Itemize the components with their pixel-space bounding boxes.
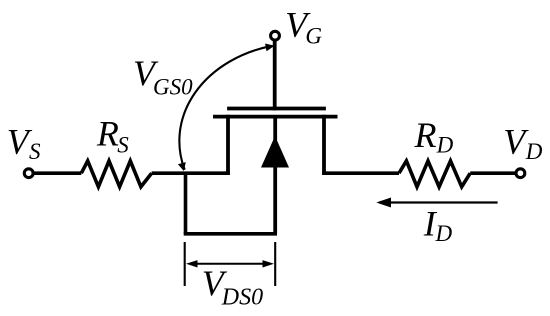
wire gate lead from VG terminal to gate bar <box>273 40 277 110</box>
svg-text:R: R <box>96 114 119 154</box>
svg-text:G: G <box>305 24 322 49</box>
wire from VS terminal to RS <box>34 171 82 175</box>
VGS0 annotation arc <box>179 46 272 170</box>
svg-text:D: D <box>435 221 453 246</box>
resistor RS <box>81 161 151 187</box>
VDS0 dimension arrowhead right <box>263 260 275 267</box>
wire bottom horizontal <box>184 232 277 236</box>
wire node vertical at source node down to bottom <box>184 172 188 234</box>
wire from RS to source node <box>152 171 230 175</box>
ID current arrow line <box>379 201 498 203</box>
wire drain-side vertical drop from channel <box>322 115 326 175</box>
terminal circle VD <box>516 169 525 178</box>
resistor RD <box>399 161 470 187</box>
transistor channel bar <box>213 115 338 119</box>
VDS0 dimension arrow line <box>193 263 267 265</box>
VGS0 arc arrowhead at source node <box>178 162 186 171</box>
VGS0 arc arrowhead at gate <box>265 44 275 52</box>
wire from drain drop to RD <box>322 171 399 175</box>
svg-text:S: S <box>117 133 129 158</box>
transistor substrate arrow lead (vertical) <box>273 117 277 234</box>
svg-text:R: R <box>414 115 437 155</box>
svg-text:S: S <box>29 139 41 164</box>
svg-text:D: D <box>525 139 543 164</box>
VDS0 dimension tick left <box>184 242 186 286</box>
VDS0 dimension tick right <box>274 242 276 286</box>
wire source-side vertical drop to transistor channel <box>226 115 230 175</box>
VDS0 dimension arrowhead left <box>186 260 198 267</box>
ID current arrowhead <box>376 198 391 208</box>
terminal circle VG <box>271 31 280 40</box>
terminal circle VS <box>24 169 33 178</box>
transistor arrow head (filled triangle) <box>261 136 289 168</box>
svg-text:GS0: GS0 <box>153 75 193 100</box>
svg-text:DS0: DS0 <box>221 284 263 310</box>
wire from RD to VD terminal <box>470 171 515 175</box>
svg-text:D: D <box>436 133 454 158</box>
transistor gate bar <box>227 107 326 111</box>
